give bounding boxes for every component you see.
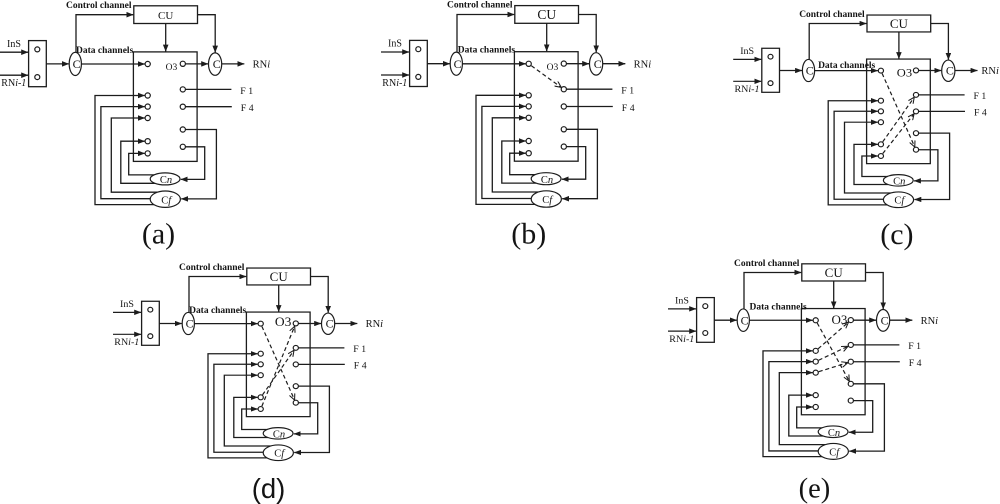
svg-text:C: C [213,57,221,71]
left contact 2 (c) [878,98,883,103]
wire Cn output to input 5 (e) [789,395,823,436]
dashed connection input to lower contact (e) [817,323,849,381]
wire selector to multiplexer C (e) [714,319,737,321]
wire InS input arrow (b) [381,51,409,53]
wire F1 (d) [298,347,344,349]
wire output to RNi (c) [955,70,978,72]
input selector box (e) [697,298,715,343]
wire RNi-1 input arrow (e) [668,330,696,332]
right contact O3 (c) [913,68,918,73]
wire InS input arrow (c) [733,58,761,60]
right contact fb-Cn (b) [561,144,566,149]
svg-text:Cn: Cn [160,175,172,186]
svg-text:C: C [186,318,194,331]
svg-text:Cn: Cn [893,177,905,188]
svg-text:RNi-1: RNi-1 [382,78,407,89]
svg-text:Control channel: Control channel [734,259,800,269]
wire CU to output switch C (c) [931,24,949,60]
svg-text:CU: CU [890,17,908,31]
wire Cf output to input 3 (e) [769,362,820,451]
wire CU to output switch C (b) [579,15,597,53]
wire data channels into block (c) [815,70,878,72]
svg-text:Control channel: Control channel [66,1,132,11]
wire RNi-1 input arrow (b) [381,74,409,76]
svg-text:F 4: F 4 [622,103,635,114]
right contact F1 (d) [293,345,298,350]
wire feedback to Cn (c) [914,150,938,181]
svg-text:F 4: F 4 [241,103,254,114]
svg-text:O3: O3 [897,66,912,80]
wire F4 (e) [853,361,899,363]
wire Cf output to input 2 (a) [95,96,156,205]
right contact F1 (e) [848,342,853,347]
svg-text:C: C [454,57,462,71]
right contact F1 (b) [561,87,566,92]
svg-text:RNi: RNi [921,316,939,327]
control unit CU box (e) [802,264,866,281]
wire data channels into block (e) [749,319,812,321]
wire feedback to Cf (d) [294,386,329,452]
wire Cf output to input 3 (c) [834,111,885,199]
left contact 6 (e) [813,404,818,409]
wire CU to block (b) [546,23,548,51]
left contact 3 (a) [145,104,150,109]
wire O3 to output switch (d) [298,323,321,325]
wire O3 to output switch (b) [566,63,589,65]
right contact fb-Cf (b) [561,127,566,132]
output switch C ellipse (d) [322,313,335,334]
Cn ellipse (c) [883,175,913,186]
output switch C ellipse (e) [877,310,890,332]
svg-text:C: C [741,314,749,328]
svg-text:RNi: RNi [366,319,384,330]
Cn ellipse (a) [150,173,180,185]
switching block (a) [133,52,197,161]
selector contact bottom (c) [768,81,773,86]
multiplexer C ellipse (d) [182,312,194,334]
selector contact top (e) [703,304,708,309]
svg-text:Control channel: Control channel [179,263,245,273]
svg-text:F 4: F 4 [354,361,367,372]
wire feedback to Cf (e) [849,384,884,451]
Cn ellipse (d) [263,428,293,439]
control unit CU box (b) [515,6,579,24]
svg-text:Data channels: Data channels [818,61,876,71]
dashed connection Cn contact to F1 (d) [263,350,294,394]
left contact 1 (c) [878,68,883,73]
output switch C ellipse (b) [590,53,603,75]
input selector box (d) [142,301,160,345]
svg-text:InS: InS [675,296,689,307]
svg-text:C: C [946,65,954,78]
selector contact top (b) [416,47,421,52]
wire O3 to output switch (a) [185,63,208,65]
wire selector to multiplexer C (d) [159,323,182,325]
wire CU to output switch C (e) [866,272,884,309]
right contact fb-Cf (d) [293,384,298,389]
dashed connection input to F1 (b) [531,66,561,88]
left contact 3 (d) [258,362,263,367]
right contact F1 (a) [180,87,185,92]
selector contact top (a) [35,47,40,52]
wire Cf output to input 3 (a) [101,107,152,199]
wire CU to block (c) [898,32,900,59]
multiplexer C ellipse (e) [737,309,749,332]
svg-text:InS: InS [740,46,754,57]
wire selector to multiplexer C (a) [46,63,69,65]
wire data channels into block (a) [81,63,144,65]
svg-text:C: C [73,57,81,71]
wire Cf output to input 4 (a) [111,118,159,192]
left contact 4 (d) [258,373,263,378]
svg-text:CU: CU [158,10,173,22]
svg-text:(a): (a) [142,218,175,251]
wire CU to block (a) [165,24,167,52]
wire selector to multiplexer C (b) [427,63,450,65]
svg-text:F 1: F 1 [353,344,366,355]
wire control channel to CU (e) [744,272,801,308]
left contact 2 (b) [526,93,531,98]
wire control channel to CU (d) [189,277,246,313]
wire Cf output to input 3 (b) [482,106,533,198]
right contact fb-Cn (d) [293,400,298,405]
wire RNi-1 input arrow (c) [733,80,761,82]
svg-text:RNi-1: RNi-1 [114,337,139,348]
Cf ellipse (d) [263,445,293,461]
left contact 1 (d) [258,321,263,326]
left contact 5 (e) [813,393,818,398]
svg-text:RNi: RNi [634,59,652,70]
wire Cn output to input 5 (b) [502,141,536,183]
wire Cf output to input 4 (c) [845,122,893,193]
svg-text:C: C [594,57,602,71]
left contact 4 (a) [145,115,150,120]
right contact F4 (a) [180,104,185,109]
svg-text:C: C [326,318,334,331]
left contact 5 (b) [526,138,531,143]
wire F4 (a) [185,106,231,108]
wire F4 (c) [919,110,965,112]
svg-text:Cn: Cn [828,428,840,439]
wire output to RNi (d) [335,323,358,325]
multiplexer C ellipse (a) [69,52,81,75]
wire Cn output to input 5 (d) [234,397,268,437]
left contact 2 (e) [813,348,818,353]
wire O3 to output switch (c) [919,70,942,72]
wire Cn output to input 6 (e) [797,407,825,428]
wire Cf output to input 4 (e) [779,373,827,445]
multiplexer C ellipse (c) [802,59,814,81]
wire Cn output to input 5 (a) [121,141,155,183]
svg-text:Cn: Cn [541,175,553,186]
wire Cf output to input 4 (d) [224,375,272,446]
selector contact top (d) [148,307,153,312]
left contact 1 (e) [813,318,818,323]
wire CU to block (e) [833,281,835,308]
svg-text:InS: InS [7,39,21,50]
wire feedback to Cn (b) [562,147,586,180]
svg-text:Control channel: Control channel [799,10,865,20]
wire feedback to Cf (a) [181,130,216,199]
svg-text:(b): (b) [511,218,546,251]
wire feedback to Cn (a) [181,147,205,180]
wire Cf output to input 2 (e) [763,351,824,457]
wire feedback to Cn (e) [849,401,873,433]
wire F1 (a) [185,88,231,90]
svg-text:F 1: F 1 [974,91,987,102]
Cf ellipse (e) [818,443,848,459]
svg-text:F 1: F 1 [908,341,921,352]
output switch C ellipse (c) [942,60,955,81]
svg-text:(e): (e) [799,474,831,504]
svg-text:CU: CU [270,270,288,284]
right contact F4 (d) [293,362,298,367]
right contact fb-Cf (e) [848,381,853,386]
svg-text:F 4: F 4 [909,358,922,369]
svg-text:RNi-1: RNi-1 [735,84,760,95]
svg-text:Data channels: Data channels [750,303,808,313]
control unit CU box (a) [134,6,198,24]
svg-text:InS: InS [388,39,402,50]
right contact fb-Cf (a) [180,127,185,132]
svg-text:Control channel: Control channel [447,1,513,11]
wire output to RNi (b) [603,63,626,65]
Cf ellipse (b) [531,191,561,207]
wire RNi-1 input arrow (d) [113,333,141,335]
wire Cn output to input 6 (c) [862,156,890,177]
svg-text:O3: O3 [832,313,848,327]
svg-text:O3: O3 [166,63,178,73]
svg-text:F 1: F 1 [240,86,253,97]
left contact 1 (a) [145,61,150,66]
svg-text:Data channels: Data channels [76,46,134,56]
input selector box (b) [410,40,428,86]
right contact F4 (e) [848,359,853,364]
wire F4 (b) [566,106,612,108]
wire Cf output to input 2 (b) [476,95,537,204]
svg-text:(d): (d) [252,473,286,504]
right contact F4 (c) [913,109,918,114]
selector contact bottom (e) [703,331,708,336]
dashed connection input to lower contact (c) [882,73,915,146]
control unit CU box (c) [867,15,931,32]
wire Cn output to input 6 (d) [242,409,270,430]
wire Cf output to input 3 (d) [214,364,265,452]
output switch C ellipse (a) [209,53,222,75]
left contact 5 (d) [258,395,263,400]
wire selector to multiplexer C (c) [780,70,803,72]
control unit CU box (d) [247,268,311,285]
wire feedback to Cn (d) [294,403,318,434]
left contact 6 (b) [526,151,531,156]
selector contact top (c) [768,54,773,59]
right contact O3 (d) [293,321,298,326]
wire Cf output to input 2 (c) [828,101,889,205]
right contact F1 (c) [913,92,918,97]
wire O3 to output switch (e) [853,319,876,321]
svg-text:CU: CU [825,266,843,280]
input selector box (a) [29,41,47,87]
svg-text:InS: InS [120,299,134,310]
dashed connection Cn contact to F4 (c) [883,114,914,154]
wire data channels into block (b) [462,63,525,65]
Cf ellipse (a) [150,191,180,207]
wire InS input arrow (e) [668,308,696,310]
svg-text:O3: O3 [547,63,559,73]
left contact 5 (a) [145,139,150,144]
dashed connection input to lower contact (d) [262,326,295,399]
wire feedback to Cf (b) [562,129,597,198]
wire feedback to Cf (c) [914,133,949,199]
wire output to RNi (a) [222,63,245,65]
right contact fb-Cf (c) [913,131,918,136]
switching block (b) [514,52,578,162]
wire F1 (c) [919,94,965,96]
selector contact bottom (b) [416,74,421,79]
left contact 4 (c) [878,120,883,125]
left contact 3 (b) [526,104,531,109]
selector contact bottom (a) [35,75,40,80]
svg-text:RNi-1: RNi-1 [1,78,26,89]
dashed connection Cn contact to O3 (d) [262,326,295,406]
multiplexer C ellipse (b) [450,52,462,75]
svg-text:F 4: F 4 [974,108,987,119]
left contact 2 (a) [145,93,150,98]
dashed connection Cf contact to O3 (e) [818,322,848,349]
svg-text:Cn: Cn [273,430,285,441]
wire CU to block (d) [278,285,280,312]
left contact 6 (a) [145,151,150,156]
wire F4 (d) [298,363,344,365]
dashed connection Cn contact to F1 (c) [883,97,914,141]
input selector box (c) [762,48,780,92]
svg-text:C: C [806,65,814,78]
wire control channel to CU (c) [809,24,866,60]
right contact fb-Cn (e) [848,398,853,403]
wire Cf output to input 2 (d) [208,354,269,458]
left contact 3 (e) [813,359,818,364]
svg-text:F 1: F 1 [621,86,634,97]
svg-text:Data channels: Data channels [189,306,247,316]
Cn ellipse (e) [818,426,848,438]
selector contact bottom (d) [148,334,153,339]
wire Cn output to input 6 (a) [129,153,157,175]
svg-text:RNi: RNi [253,60,271,71]
svg-text:RNi: RNi [981,66,999,77]
wire Cf output to input 4 (b) [492,118,540,192]
right contact O3 (e) [848,318,853,323]
wire control channel to CU (a) [76,15,133,52]
wire control channel to CU (b) [457,15,514,52]
wire CU to output switch C (a) [198,15,216,53]
right contact F4 (b) [561,104,566,109]
svg-text:C: C [881,314,889,328]
svg-text:CU: CU [537,7,556,22]
wire Cn output to input 5 (c) [854,144,888,184]
left contact 6 (c) [878,154,883,159]
switching block (c) [867,59,931,164]
svg-text:O3: O3 [275,314,292,329]
left contact 2 (d) [258,351,263,356]
dashed connection Cf contact to F4 (e) [819,363,848,372]
wire F1 (b) [566,88,612,90]
wire data channels into block (d) [194,323,257,325]
wire InS input arrow (d) [113,311,141,313]
left contact 4 (b) [526,115,531,120]
Cf ellipse (c) [883,192,913,208]
right contact fb-Cn (c) [913,147,918,152]
right contact O3 (b) [561,61,566,66]
Cn ellipse (b) [531,173,561,185]
svg-text:(c): (c) [880,218,913,251]
svg-text:Data channels: Data channels [458,45,516,55]
left contact 5 (c) [878,142,883,147]
left contact 6 (d) [258,407,263,412]
right contact fb-Cn (a) [180,144,185,149]
svg-text:RNi-1: RNi-1 [669,334,694,345]
right contact O3 (a) [180,61,185,66]
left contact 4 (e) [813,370,818,375]
wire InS input arrow (a) [0,51,28,53]
wire output to RNi (e) [890,319,913,321]
switching block (e) [801,309,865,415]
left contact 1 (b) [526,61,531,66]
wire RNi-1 input arrow (a) [0,74,28,76]
wire F1 (e) [853,344,899,346]
switching block (d) [246,312,310,417]
wire CU to output switch C (d) [311,277,329,313]
dashed connection Cf contact to F1 (e) [819,346,848,360]
wire Cn output to input 6 (b) [510,153,538,175]
left contact 3 (c) [878,109,883,114]
